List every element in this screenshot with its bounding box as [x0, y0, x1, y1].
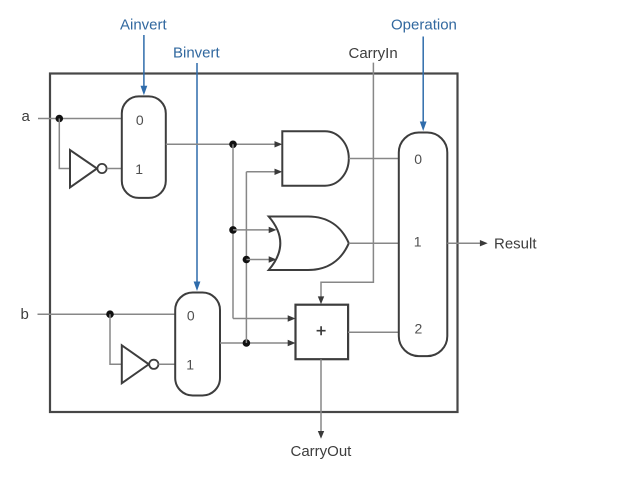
arrowhead into OR input 1: [269, 227, 277, 233]
wire input a: [38, 118, 122, 120]
mux Binvert (2-to-1): [175, 293, 220, 396]
wire adder output: [348, 331, 399, 333]
wire a to adder input 1: [233, 318, 292, 320]
adder box: [296, 305, 349, 360]
svg-text:a: a: [22, 108, 31, 125]
wire OR output: [349, 242, 399, 244]
inverter b bubble: [149, 360, 158, 369]
AND gate: [282, 131, 349, 185]
svg-text:Binvert: Binvert: [173, 45, 221, 62]
wire CarryIn: down, left, into adder top: [321, 63, 373, 301]
wire Result output: [447, 242, 484, 244]
arrowhead into AND input 1: [275, 141, 283, 147]
arrowhead CarryIn into adder: [318, 296, 324, 304]
wire input b: [38, 313, 176, 315]
wire b to inverter: [110, 314, 122, 364]
arrowhead into AND input 2: [275, 169, 283, 175]
svg-text:0: 0: [136, 112, 144, 128]
svg-text:0: 0: [187, 307, 195, 323]
svg-text:1: 1: [135, 161, 143, 177]
wire a to OR input 1: [233, 229, 273, 231]
svg-text:CarryIn: CarryIn: [349, 45, 398, 62]
wire b-bus vertical: [245, 172, 247, 343]
wire a-mux output: [166, 143, 279, 145]
arrowhead into adder input 2: [288, 340, 296, 346]
svg-text:1: 1: [186, 356, 194, 372]
Binvert control arrow: [194, 63, 201, 291]
Ainvert control arrow: [141, 35, 148, 95]
wire inverter a to mux: [107, 168, 122, 170]
arrowhead into adder input 1: [288, 315, 296, 321]
Operation control arrow: [420, 37, 427, 132]
arrowhead CarryOut: [318, 431, 324, 439]
wire b to AND input 2: [246, 171, 278, 173]
wire a-bus vertical: [232, 144, 234, 318]
junction dot a: [56, 115, 64, 123]
mux Ainvert (2-to-1): [122, 96, 166, 197]
wire b-mux output: [220, 342, 292, 344]
arrowhead Result: [480, 240, 488, 246]
wire CarryOut: [320, 359, 322, 434]
junction dot b-bus: [243, 339, 251, 347]
inverter for b: [122, 345, 149, 383]
svg-text:0: 0: [414, 151, 422, 167]
junction dot a to OR: [229, 226, 237, 234]
ALU enclosure box: [50, 74, 458, 413]
inverter for a: [70, 150, 97, 188]
arrowhead into OR input 2: [269, 256, 277, 262]
junction dot b to OR: [243, 256, 251, 264]
inverter a bubble: [97, 164, 106, 173]
OR gate: [269, 217, 349, 271]
svg-text:1: 1: [414, 234, 422, 250]
svg-text:Ainvert: Ainvert: [120, 17, 168, 34]
svg-text:CarryOut: CarryOut: [291, 443, 353, 460]
wire a to inverter: [59, 119, 70, 169]
junction dot a-bus: [229, 141, 237, 149]
svg-text:Operation: Operation: [391, 17, 457, 34]
wire inverter b to mux: [158, 363, 175, 365]
svg-text:Result: Result: [494, 235, 537, 252]
junction dot b: [106, 310, 114, 318]
wire AND output: [349, 158, 399, 160]
adder plus sign: [317, 326, 326, 335]
svg-text:2: 2: [415, 321, 423, 337]
svg-text:b: b: [21, 306, 29, 323]
wire b to OR input 2: [246, 259, 272, 261]
mux Operation (3-to-1 result mux): [399, 133, 448, 357]
